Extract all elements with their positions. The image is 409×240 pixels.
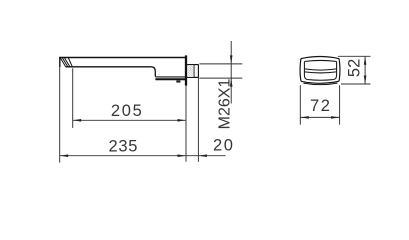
spout underside line xyxy=(66,66,152,68)
arrow 235 left xyxy=(60,154,68,157)
svg-text:52: 52 xyxy=(346,59,364,77)
front view outer outline xyxy=(300,57,340,84)
arrow 52 top xyxy=(364,57,367,65)
front view lip line upper xyxy=(305,69,337,70)
boss bottom upper line xyxy=(155,75,186,78)
arrow M26X1 bottom (pointing up) xyxy=(230,78,233,86)
extension line wall face (below flange) xyxy=(185,86,187,162)
extension line 235 left xyxy=(59,67,61,162)
spout tip chamfer line xyxy=(68,58,72,67)
dimension line 52 xyxy=(364,56,366,84)
arrow 72 left xyxy=(301,116,309,119)
extension line 72 left xyxy=(299,85,301,125)
arrow 205 left xyxy=(73,119,81,122)
spout tip left edge xyxy=(59,57,61,67)
boss bottom lower thick line xyxy=(155,78,185,80)
thread end line xyxy=(193,65,195,77)
spout top edge xyxy=(59,57,186,59)
arrow 235 right xyxy=(178,154,186,157)
front view lip line lower xyxy=(305,72,337,73)
thread hatch box xyxy=(188,65,194,77)
arrow 205 right xyxy=(178,119,186,122)
dimension line 235 and 20 (collinear) xyxy=(60,155,226,157)
svg-text:20: 20 xyxy=(213,137,234,155)
front view inner opening xyxy=(304,60,336,80)
arrow 52 bottom xyxy=(364,76,367,84)
pipe bottom line xyxy=(187,76,198,78)
pipe end line xyxy=(197,64,199,77)
step fillet down to boss xyxy=(152,67,156,76)
extension line 72 right xyxy=(339,85,341,125)
M26X1 dimension line vertical xyxy=(230,41,232,104)
extension line pipe end (below pipe) xyxy=(197,78,199,162)
front view bottom edge second line xyxy=(303,83,337,85)
M26X1 extension line bottom xyxy=(199,77,242,79)
arrow 72 right xyxy=(331,116,339,119)
svg-text:235: 235 xyxy=(108,137,138,155)
wall flange thick line xyxy=(185,55,187,85)
extension line 52 bottom xyxy=(341,83,371,85)
svg-text:M26X1: M26X1 xyxy=(216,79,233,130)
svg-text:205: 205 xyxy=(111,102,144,120)
arrow 20 right (pointing left from outside) xyxy=(199,154,207,157)
M26X1 extension line top xyxy=(199,63,242,65)
extension line 52 top xyxy=(338,55,371,57)
spout tip chamfer hatch xyxy=(60,57,70,67)
arrow M26X1 top (pointing down) xyxy=(230,55,233,63)
pipe top line xyxy=(187,64,198,66)
dimension line 205 xyxy=(73,119,186,121)
svg-text:72: 72 xyxy=(310,97,332,115)
extension line 205 left xyxy=(72,68,74,128)
set screw notch xyxy=(176,80,180,82)
dimension line 72 xyxy=(300,116,339,118)
